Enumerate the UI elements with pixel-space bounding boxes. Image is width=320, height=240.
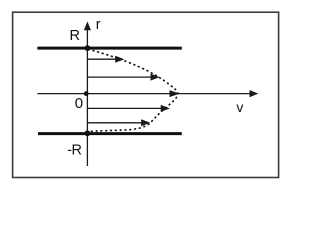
junction dot bottom (r = -R) [85,130,91,136]
svg-text:r: r [96,17,101,33]
svg-text:0: 0 [75,95,83,112]
velocity arrow 2 [88,74,160,81]
pipe wall bottom [38,132,182,135]
pipe wall top [37,47,181,50]
velocity arrow 3 (center, on axis) [170,90,180,97]
svg-text:-R: -R [67,142,81,158]
svg-text:R: R [70,28,80,44]
v axis [37,90,258,97]
border frame [13,12,279,177]
velocity arrow 1 [88,56,124,63]
dotted velocity profile curve [89,49,178,131]
junction dot top (r = R) [85,45,91,51]
junction dot origin [84,91,89,96]
velocity arrow 4 [88,105,170,112]
svg-text:v: v [236,99,243,115]
r axis [84,21,91,166]
velocity arrow 5 [88,119,150,126]
